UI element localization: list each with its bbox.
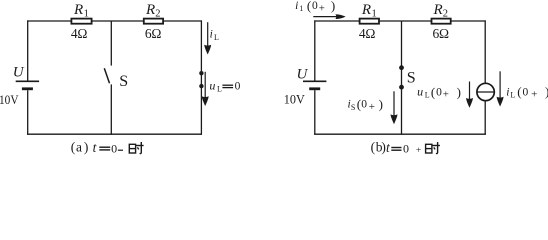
battery short plate (a) [22, 87, 33, 90]
svg-text:4Ω: 4Ω [71, 26, 88, 41]
arrow uL (b) [466, 82, 473, 108]
battery long plate (a) [16, 80, 39, 82]
svg-text:6Ω: 6Ω [145, 26, 162, 41]
caption CJK shi (a) [129, 142, 143, 154]
resistor R1 (b) [360, 19, 379, 24]
svg-text:0: 0 [403, 142, 409, 156]
wire top (b) [314, 20, 486, 22]
svg-text:U: U [13, 65, 25, 81]
arrow i1 (b) [313, 14, 345, 19]
svg-text:U: U [297, 67, 309, 83]
wire left upper (b) [314, 20, 316, 80]
wire bottom (a) [27, 133, 202, 135]
wire right (a) [200, 20, 202, 134]
node dot lower (a) [199, 84, 203, 88]
arrow iL (b) [497, 71, 504, 106]
arrow iL (a) [204, 22, 211, 54]
svg-text:S: S [407, 70, 416, 87]
svg-text:0: 0 [111, 142, 117, 156]
current source circle (b) [477, 83, 494, 100]
resistor R1 (a) [71, 19, 91, 24]
svg-text:S: S [119, 73, 128, 90]
svg-text:10V: 10V [0, 92, 19, 107]
wire left upper (a) [27, 20, 29, 80]
caption (a) [71, 140, 123, 156]
wire top (a) [27, 20, 202, 22]
wire bottom (b) [314, 133, 486, 135]
label uL=0 (a) [209, 79, 240, 94]
caption (b) [371, 140, 422, 156]
arrow iS (b) [391, 91, 398, 124]
switch terminal dot lower (b) [399, 85, 404, 90]
node dot upper (a) [199, 71, 203, 75]
svg-text:(a): (a) [71, 140, 89, 155]
battery long plate (b) [303, 80, 326, 82]
wire right upper (b) [484, 20, 486, 83]
svg-text:+: + [416, 146, 421, 156]
wire switch branch lower (a) [110, 84, 112, 134]
resistor R2 (b) [432, 19, 451, 24]
caption CJK shi (b) [426, 142, 440, 154]
switch S blade (a) [104, 68, 109, 83]
wire switch branch (b) [401, 21, 403, 135]
resistor R2 (a) [144, 19, 163, 24]
svg-text:(b): (b) [371, 140, 386, 155]
svg-text:4Ω: 4Ω [359, 26, 376, 41]
wire right lower (b) [484, 101, 486, 135]
wire left lower (b) [314, 90, 316, 135]
battery short plate (b) [309, 87, 320, 90]
svg-text:6Ω: 6Ω [433, 26, 450, 41]
switch terminal dot upper (b) [399, 65, 404, 70]
wire left lower (a) [27, 90, 29, 135]
svg-text:10V: 10V [284, 92, 306, 107]
current source bar (b) [477, 91, 494, 93]
wire switch branch upper (a) [110, 21, 112, 66]
arrow uL (a) [202, 72, 209, 106]
